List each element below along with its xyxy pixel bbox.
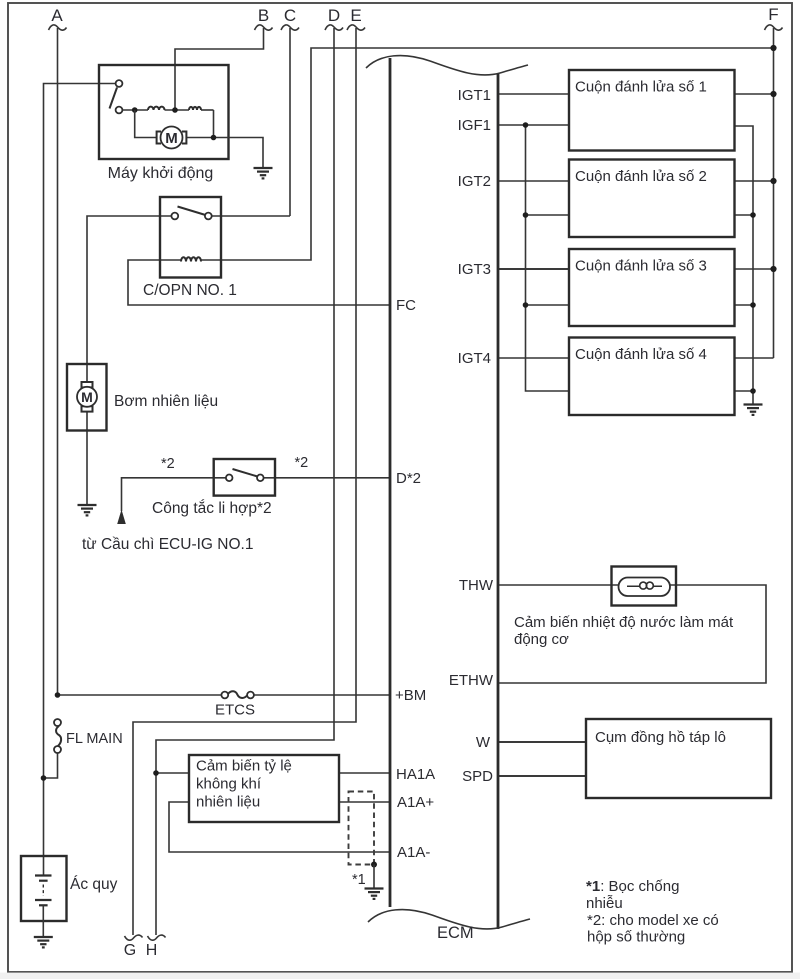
wire starter motor right to ground	[187, 138, 264, 169]
svg-text:M: M	[165, 130, 178, 147]
arrow from ECU-IG fuse	[117, 510, 126, 525]
svg-text:Cảm biến nhiệt độ nước làm mát: Cảm biến nhiệt độ nước làm mát	[514, 614, 734, 631]
svg-text:Cuộn đánh lửa số 2: Cuộn đánh lửa số 2	[575, 168, 707, 185]
node starter B junction	[172, 107, 178, 113]
wire A1A-	[169, 802, 390, 852]
node coil4 gnd junction	[750, 388, 756, 394]
wire W	[498, 741, 586, 743]
svg-text:IGT3: IGT3	[458, 261, 491, 278]
starter motor M	[157, 127, 187, 149]
ignition coil 1 box	[569, 70, 735, 151]
battery cells	[35, 876, 52, 906]
wire A1A+	[339, 801, 390, 803]
svg-text:A1A+: A1A+	[397, 794, 434, 811]
wire clutch switch left with arrow	[122, 478, 226, 511]
shield dashed box	[349, 792, 375, 865]
svg-text:*2: *2	[295, 455, 309, 471]
wire starter motor left leg	[135, 110, 157, 138]
ground pump	[78, 505, 97, 515]
wire F vertical	[773, 28, 775, 358]
relay C/OPN NO.1 box	[160, 197, 221, 278]
wire IGT2	[498, 180, 569, 182]
node FL MAIN jog junction	[41, 775, 47, 781]
relay switch	[171, 207, 211, 220]
svg-text:Cụm đồng hồ táp lô: Cụm đồng hồ táp lô	[595, 729, 726, 746]
starter switch	[110, 80, 123, 113]
label sensor box lines	[196, 758, 292, 811]
svg-text:SPD: SPD	[462, 768, 493, 785]
node A +BM junction	[55, 692, 61, 698]
ECM left edge	[366, 56, 528, 907]
wire D vertical to H	[156, 28, 334, 935]
svg-text:Cuộn đánh lửa số 3: Cuộn đánh lửa số 3	[575, 258, 707, 275]
wire FL MAIN jog	[44, 753, 58, 778]
wire sensor left to H	[156, 772, 189, 774]
svg-text:IGT2: IGT2	[458, 173, 491, 190]
node shield ground junction	[371, 862, 377, 868]
wire pump to ground	[86, 412, 88, 506]
svg-text:ECM: ECM	[437, 924, 474, 942]
wire IGT1	[498, 93, 569, 95]
svg-text:*2: *2	[161, 456, 175, 472]
wire HA1A	[339, 772, 390, 774]
wire coil2 right bottom	[735, 214, 754, 216]
wire battery branch vertical	[44, 84, 116, 876]
node IGF1 junction	[523, 122, 529, 128]
svg-text:động cơ: động cơ	[514, 631, 569, 648]
starter motor box	[99, 65, 229, 159]
node coil2 gnd junction	[750, 212, 756, 218]
svg-text:không khí: không khí	[196, 776, 262, 793]
connector F	[765, 5, 783, 30]
wire coil4 right bottom	[735, 390, 754, 392]
wire starter feed y49 handled above; wire relay switch to pump	[87, 216, 172, 382]
wire A vertical	[57, 28, 59, 696]
fuse FL MAIN	[54, 719, 61, 753]
fuel pump box	[67, 364, 107, 431]
wire relay coil left to FC	[128, 260, 390, 305]
ignition coil 3 box	[569, 249, 735, 326]
ignition coil 2 box	[569, 160, 735, 238]
node H sensor junction	[153, 770, 159, 776]
node IGF2 junction	[523, 212, 529, 218]
coolant temp sensor	[612, 567, 677, 606]
wire starter coil2 down leg	[213, 110, 215, 138]
ground ignition coils	[744, 405, 763, 415]
wire IGF coil3	[526, 304, 570, 306]
connector B	[255, 6, 273, 30]
A/F sensor box	[189, 755, 339, 822]
svg-text:Máy khởi động: Máy khởi động	[108, 165, 214, 182]
wire IGT3	[498, 268, 569, 270]
svg-text:Công tắc li hợp*2: Công tắc li hợp*2	[152, 500, 272, 517]
svg-text:THW: THW	[459, 577, 494, 594]
wire relay coil to F	[201, 48, 774, 260]
wire shield ground stem	[373, 865, 375, 889]
svg-text:A: A	[51, 6, 63, 25]
wire C vertical	[289, 28, 291, 216]
wire IGF coil2	[526, 214, 570, 216]
wire +BM right	[254, 694, 390, 696]
battery box	[21, 856, 67, 921]
connector E	[347, 6, 365, 30]
svg-text:ETHW: ETHW	[449, 672, 494, 689]
node coil1 F junction	[770, 91, 776, 97]
wire coil ground bus	[735, 126, 754, 405]
ECM right edge	[368, 74, 530, 929]
connector C	[281, 6, 299, 30]
ground starter	[254, 168, 273, 178]
svg-text:Ác quy: Ác quy	[70, 876, 118, 893]
connector A	[49, 6, 67, 30]
svg-text:A1A-: A1A-	[397, 844, 430, 861]
wire coil3 right bottom	[735, 304, 754, 306]
wire coil3 right top	[735, 268, 774, 270]
svg-text:nhiên liệu: nhiên liệu	[196, 794, 260, 811]
wire IGF1	[498, 124, 569, 126]
svg-text:Cảm biến tỷ lệ: Cảm biến tỷ lệ	[196, 758, 292, 775]
svg-text:*1: Bọc chống: *1: Bọc chống	[586, 878, 679, 895]
svg-text:IGF1: IGF1	[458, 117, 491, 134]
field coil L1	[148, 107, 165, 110]
svg-text:FL MAIN: FL MAIN	[66, 731, 123, 747]
node coil2 F junction	[770, 178, 776, 184]
wire clutch switch to D*2	[264, 477, 390, 479]
svg-text:G: G	[124, 942, 136, 959]
note *1	[586, 878, 679, 912]
svg-text:C: C	[284, 6, 296, 25]
instrument cluster box	[586, 719, 771, 798]
wire +BM left	[58, 694, 222, 696]
svg-text:Cuộn đánh lửa số 1: Cuộn đánh lửa số 1	[575, 79, 707, 96]
svg-text:M: M	[81, 389, 93, 405]
wire starter armature row	[122, 109, 213, 111]
wire IGF bus vertical	[526, 125, 570, 391]
svg-text:từ Cầu chì ECU-IG NO.1: từ Cầu chì ECU-IG NO.1	[82, 536, 253, 553]
wire coil4 right top	[735, 357, 774, 359]
wire battery to ground	[42, 905, 44, 937]
node coil3 gnd junction	[750, 302, 756, 308]
fuel pump motor	[77, 382, 97, 412]
ground shield	[365, 889, 384, 899]
svg-text:ETCS: ETCS	[215, 702, 255, 719]
wire coil1 right top	[735, 93, 774, 95]
clutch switch box	[214, 459, 275, 496]
svg-text:+BM: +BM	[395, 687, 426, 704]
svg-text:W: W	[476, 734, 491, 751]
svg-text:*2: cho model xe có: *2: cho model xe có	[587, 912, 719, 929]
svg-text:IGT4: IGT4	[458, 350, 491, 367]
node F top junction	[770, 45, 776, 51]
wire relay switch to C	[212, 215, 291, 217]
connector G	[124, 935, 143, 959]
svg-text:hộp số thường: hộp số thường	[587, 929, 685, 946]
ground battery	[34, 937, 53, 947]
wire SPD	[498, 775, 586, 777]
svg-text:H: H	[146, 942, 158, 959]
svg-text:Bơm nhiên liệu: Bơm nhiên liệu	[114, 393, 218, 410]
wire E vertical to G	[133, 28, 356, 935]
svg-text:Cuộn đánh lửa số 4: Cuộn đánh lửa số 4	[575, 346, 707, 363]
svg-text:C/OPN NO. 1: C/OPN NO. 1	[143, 282, 237, 299]
svg-text:D: D	[328, 6, 340, 25]
wire IGT4	[498, 357, 569, 359]
svg-text:*1: *1	[352, 872, 366, 888]
wire THW loop	[498, 585, 766, 683]
wire B to starter	[175, 28, 264, 110]
svg-text:FC: FC	[396, 297, 416, 314]
svg-text:B: B	[258, 6, 269, 25]
node starter left junction	[132, 107, 138, 113]
svg-text:nhiễu: nhiễu	[586, 895, 623, 912]
field coil L2	[189, 107, 201, 110]
node coil3 F junction	[770, 266, 776, 272]
svg-text:D*2: D*2	[396, 470, 421, 487]
node starter motor right junction	[211, 135, 217, 141]
note *2	[587, 912, 719, 946]
ignition coil 4 box	[569, 338, 735, 416]
fuse ETCS	[221, 691, 254, 698]
clutch switch	[226, 469, 264, 481]
svg-text:E: E	[350, 6, 361, 25]
connector D	[325, 6, 343, 30]
svg-text:F: F	[768, 5, 778, 24]
relay coil	[181, 257, 201, 261]
wire coil2 right top	[735, 180, 774, 182]
label coolant sensor	[514, 614, 734, 648]
svg-text:HA1A: HA1A	[396, 766, 435, 783]
node IGF3 junction	[523, 302, 529, 308]
connector H	[146, 935, 166, 959]
svg-text:IGT1: IGT1	[458, 87, 491, 104]
